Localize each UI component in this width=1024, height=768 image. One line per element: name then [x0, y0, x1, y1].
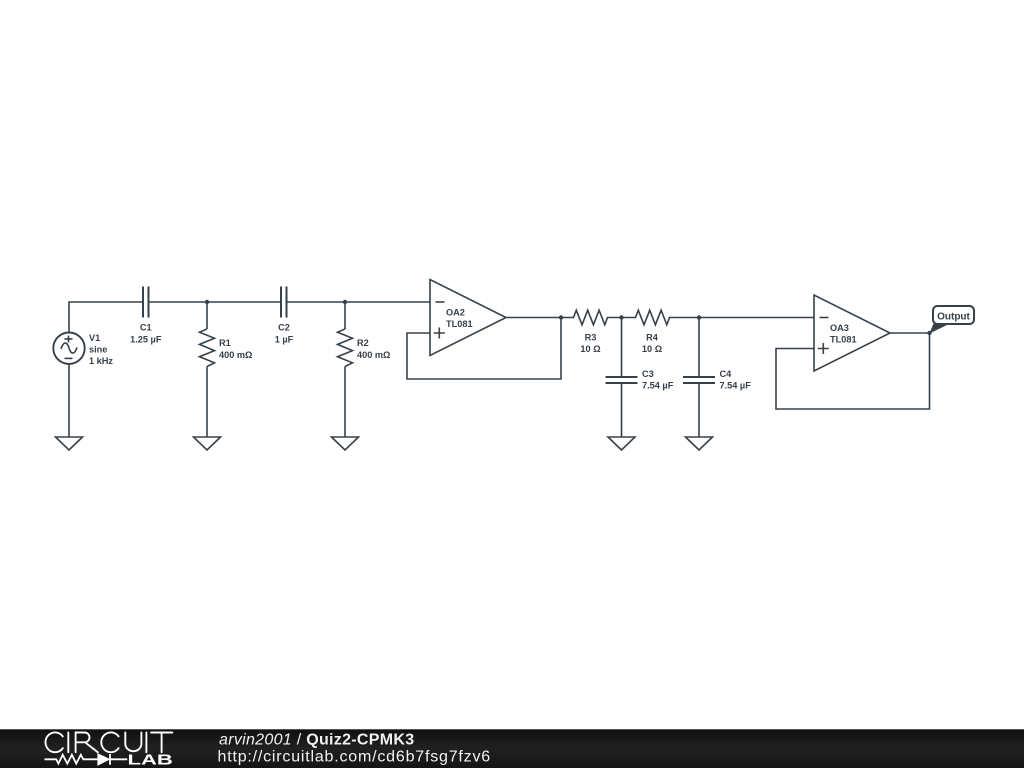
ground symbol for R1: [194, 437, 221, 450]
voltage source V1: [53, 333, 84, 364]
svg-text:400 mΩ: 400 mΩ: [219, 350, 252, 360]
capacitor C2: [281, 287, 287, 318]
resistor R3: [561, 310, 622, 325]
svg-text:7.54 µF: 7.54 µF: [642, 381, 674, 391]
label C3 name and value: [642, 369, 674, 391]
svg-text:1.25 µF: 1.25 µF: [130, 335, 162, 345]
ground symbol for C4: [686, 437, 713, 450]
wire node E to OA3 inverting input: [699, 317, 814, 319]
svg-text:TL081: TL081: [830, 335, 857, 345]
junction node F: [927, 331, 931, 335]
capacitor C4: [683, 377, 715, 383]
wire node A to C2 left plate: [207, 301, 281, 303]
svg-text:10 Ω: 10 Ω: [642, 344, 662, 354]
label R3 name and value: [580, 333, 600, 355]
svg-text:7.54 µF: 7.54 µF: [720, 381, 752, 391]
capacitor C1: [143, 287, 149, 318]
wire node E down to C4 top plate: [698, 318, 700, 378]
op-amp OA2: [430, 280, 506, 356]
svg-text:V1: V1: [89, 333, 100, 343]
wire node D down to C3 top plate: [621, 318, 623, 378]
wire C1 right plate to node A: [149, 301, 208, 303]
ground symbol for C3: [608, 437, 635, 450]
label Output flag text: [937, 312, 970, 323]
resistor R4: [622, 310, 700, 325]
junction node A: [205, 300, 209, 304]
svg-text:R3: R3: [585, 333, 597, 343]
svg-text:1 µF: 1 µF: [275, 335, 294, 345]
svg-text:C3: C3: [642, 369, 654, 379]
svg-text:sine: sine: [89, 345, 107, 355]
label C1 name and value: [130, 323, 162, 345]
output flag box: [930, 306, 975, 334]
wire OA3 output to node F: [890, 332, 930, 334]
ground symbol for V1: [56, 437, 83, 450]
label R4 name and value: [642, 333, 662, 355]
junction node D: [619, 315, 623, 319]
label C2 name and value: [275, 323, 294, 345]
wire C2 right plate to node B: [287, 301, 345, 303]
capacitor C3: [606, 377, 638, 383]
logo CIRCUIT wordmark: [45, 732, 172, 752]
wire V1 top lead to C1 left plate: [69, 302, 143, 333]
junction node E: [697, 315, 701, 319]
ground symbol for R2: [332, 437, 359, 450]
wire node B down to R2: [344, 302, 346, 329]
label OA2 name and part: [446, 308, 473, 330]
wire OA3 feedback loop from node F to noninverting input: [776, 333, 930, 409]
label C4 name and value: [720, 369, 752, 391]
op-amp OA3: [814, 295, 890, 371]
wire C4 bottom plate to ground: [698, 383, 700, 437]
svg-text:R2: R2: [357, 338, 369, 348]
junction node C: [559, 315, 563, 319]
svg-text:TL081: TL081: [446, 319, 473, 329]
svg-text:400 mΩ: 400 mΩ: [357, 350, 390, 360]
label R1 name and value: [219, 338, 252, 360]
svg-text:10 Ω: 10 Ω: [580, 344, 600, 354]
wire R2 bottom to ground: [344, 367, 346, 438]
label OA3 name and part: [830, 323, 857, 345]
wire V1 bottom lead to ground: [68, 364, 70, 437]
svg-text:http://circuitlab.com/cd6b7fsg: http://circuitlab.com/cd6b7fsg7fzv6: [218, 749, 491, 766]
footer bar: [0, 729, 1024, 768]
svg-text:Output: Output: [937, 312, 970, 323]
wire C3 bottom plate to ground: [621, 383, 623, 437]
resistor R1: [200, 329, 215, 367]
wire R1 bottom to ground: [206, 367, 208, 438]
svg-text:arvin2001 / Quiz2-CPMK3: arvin2001 / Quiz2-CPMK3: [219, 732, 414, 749]
wire node B to OA2 inverting input: [345, 301, 430, 303]
svg-text:C2: C2: [278, 323, 290, 333]
svg-text:1 kHz: 1 kHz: [89, 356, 113, 366]
svg-text:R1: R1: [219, 338, 231, 348]
label V1 name and value: [89, 333, 113, 366]
svg-text:R4: R4: [646, 333, 659, 343]
svg-text:LAB: LAB: [128, 752, 173, 768]
junction node B: [343, 300, 347, 304]
svg-text:OA2: OA2: [446, 308, 465, 318]
resistor R2: [338, 329, 353, 367]
wire node A down to R1: [206, 302, 208, 329]
wire OA2 feedback loop from node C to noninverting input: [407, 318, 561, 380]
logo resistor-diode glyph: [45, 754, 128, 765]
svg-text:C4: C4: [720, 369, 733, 379]
svg-text:C1: C1: [140, 323, 152, 333]
wire OA2 output to node C: [506, 317, 561, 319]
svg-text:OA3: OA3: [830, 323, 849, 333]
label R2 name and value: [357, 338, 390, 360]
